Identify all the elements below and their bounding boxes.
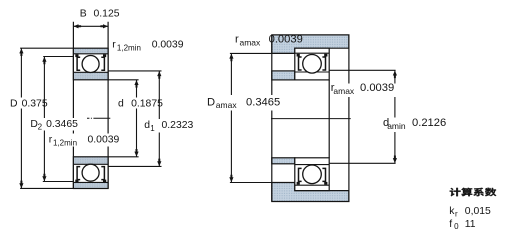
svg-text:0.2323: 0.2323 [162,120,194,131]
svg-text:0: 0 [454,222,459,231]
label damin 0.2126 [382,118,452,133]
right bearing outline box (bottom half) [295,158,329,191]
svg-text:r: r [112,40,116,51]
left bearing outline box (top half) [73,48,108,80]
label d1 0.2323 [142,119,195,133]
right bearing right face line (between halves) [328,80,330,158]
right drawing: right boundary line [348,35,350,202]
label: calculation factors heading (Chinese) [450,188,497,196]
svg-text:11: 11 [465,219,476,230]
left bearing ball (bottom half) [82,164,99,181]
svg-text:0.0039: 0.0039 [152,40,184,51]
centerline right drawing [271,118,351,120]
right bearing outline box (top half) [295,48,329,80]
dimension d extension lines [108,79,139,81]
right drawing: housing block (bottom) [272,183,349,202]
dimension ramax/damin extension lines [329,69,395,71]
svg-text:0.0039: 0.0039 [269,34,303,46]
label Damax 0.3465 [205,95,282,111]
right bearing ball (bottom half) [303,165,322,184]
dimension D extension lines [20,47,73,49]
svg-text:0,015: 0,015 [465,206,491,217]
svg-text:1,2min: 1,2min [117,43,141,52]
dimension ramax/damin line [394,71,396,164]
label D2 0.3465 [29,118,89,131]
centerline left drawing [87,117,110,119]
svg-text:d: d [118,98,124,109]
left bearing ball (top half) [82,56,99,73]
right bearing ring boundary lines (top half) [295,52,329,54]
svg-text:0.3465: 0.3465 [46,119,78,130]
right bearing shield anchors (top half) [297,54,300,57]
right bearing ring boundary lines (bottom half) [295,164,329,166]
svg-text:0.0039: 0.0039 [360,82,394,94]
dimension Damax extension lines [230,52,295,54]
label B 0.125 [78,8,121,19]
svg-text:r: r [235,34,239,46]
right bearing ball (top half) [303,55,322,74]
left bearing ring boundary lines (bottom half) [73,163,108,165]
left bearing ring boundary lines (top half) [73,53,108,55]
left bearing shield brackets (top half) [77,57,80,70]
label D 0.375 [8,98,48,109]
dimension Damax line [230,54,232,183]
svg-text:2: 2 [38,122,43,131]
dimension B line [73,25,108,27]
right bearing shield brackets (bottom half) [299,168,302,181]
svg-text:f: f [449,219,452,230]
right drawing: housing block (top) [272,35,349,54]
svg-text:1: 1 [150,124,155,133]
dimension D line [20,48,22,188]
right drawing: shaft abutment (top) [272,71,295,80]
svg-text:0.0039: 0.0039 [88,135,120,146]
left bearing outer ring band (top half) [73,48,108,54]
svg-text:0.1875: 0.1875 [131,98,163,109]
right bearing shield anchors (bottom half) [297,182,300,185]
left bearing shield anchors (top half) [75,54,78,57]
right bearing shield brackets (top half) [299,57,302,70]
label d 0.1875 [116,98,166,109]
svg-text:0.125: 0.125 [94,8,120,19]
svg-text:0.2126: 0.2126 [412,117,446,129]
left bearing shield anchors (bottom half) [75,180,78,183]
svg-text:B: B [80,8,87,19]
svg-text:1,2min: 1,2min [53,138,77,147]
dimension D2 line [43,57,45,182]
left bearing face lines / B extension lines [72,22,74,189]
dimension d1 line [158,71,160,166]
right drawing: shaft abutment (bottom) [272,158,295,164]
dimension d line [136,80,138,157]
svg-text:D: D [207,97,215,109]
left bearing shield brackets (bottom half) [77,167,80,180]
svg-text:r: r [455,209,458,218]
svg-text:amax: amax [216,100,238,110]
right drawing: left boundary line [271,35,273,202]
left bearing inner ring band (top half) [73,72,108,80]
svg-text:amax: amax [333,86,355,96]
label r1,2min 0.0039 (bottom) [47,134,125,147]
svg-text:amax: amax [240,37,262,47]
svg-text:D: D [10,98,18,109]
left bearing outer ring band (bottom half) [73,182,108,188]
label ramax 0.0039 (right) [330,84,400,98]
svg-text:amin: amin [387,121,406,131]
dimension d1 extension lines [108,70,161,72]
dimension D2 extension lines [43,56,73,58]
left bearing outline box (bottom half) [73,157,108,189]
left bearing inner ring band (bottom half) [73,157,108,165]
svg-text:0.3465: 0.3465 [246,97,280,109]
